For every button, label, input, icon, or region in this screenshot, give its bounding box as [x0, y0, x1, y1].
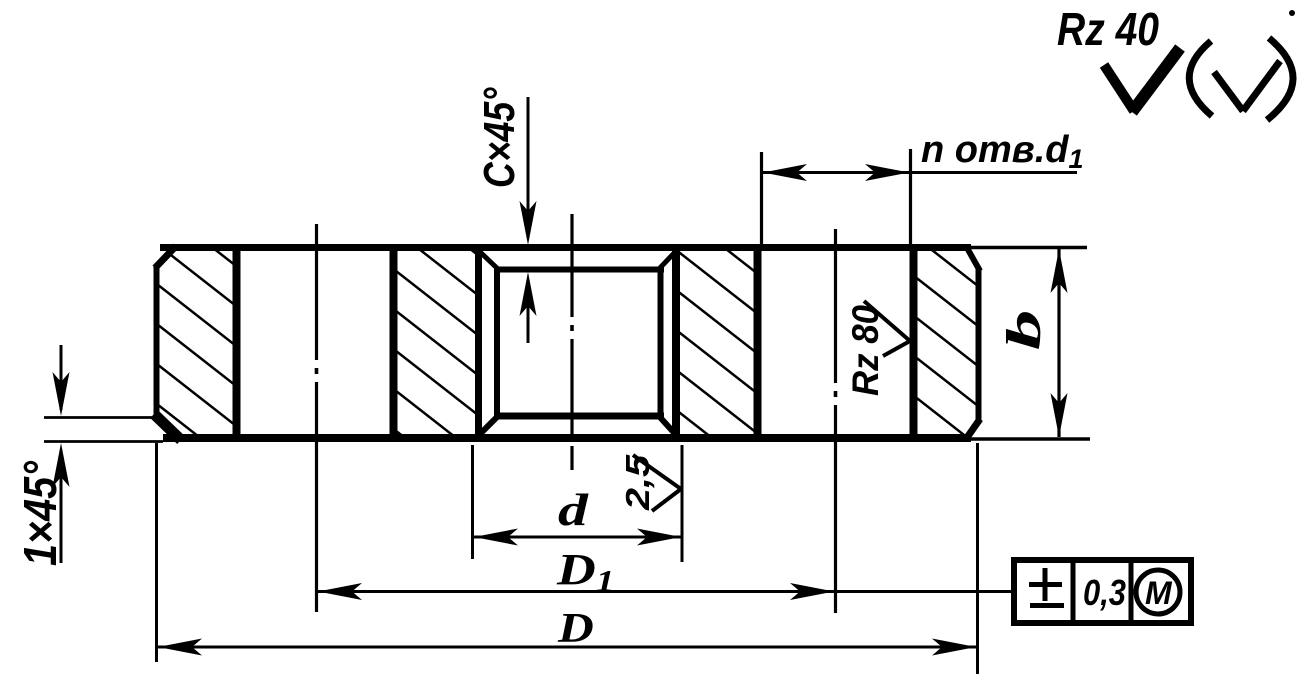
hatched section: right rim block: [914, 248, 978, 437]
center hole outer left line: [475, 249, 482, 436]
dimension n otv d1: right extension line: [909, 149, 912, 246]
left bolt hole left wall: [233, 248, 241, 437]
center hole inner top line: [494, 267, 664, 273]
dimension D: dimension line: [157, 646, 977, 649]
svg-text:C×45°: C×45°: [476, 87, 524, 188]
big check mark: [1104, 65, 1134, 111]
hole chamfer top-right: [658, 250, 677, 270]
chamfer top-right: [966, 246, 980, 271]
dimension D: left extension line: [155, 443, 158, 662]
dimension b: vertical line with arrows: [1057, 249, 1060, 437]
chamfer top-left: [155, 246, 176, 268]
dimension n otv d1: left extension line: [760, 152, 763, 246]
hatched section: block between center hole and right bolt hole: [679, 249, 756, 437]
body left edge: [154, 265, 160, 419]
right bolt hole left wall: [754, 248, 762, 437]
center hole inner left line: [494, 267, 500, 417]
center line of right bolt hole: [834, 229, 837, 383]
svg-text:n отв.d1: n отв.d1: [921, 129, 1084, 174]
svg-text:b: b: [998, 310, 1051, 350]
dimension 1 x 45 (left chamfer): top extension line: [44, 416, 158, 419]
center hole inner right line: [658, 267, 664, 417]
dimension C x 45: up arrow below: [527, 280, 530, 343]
right bolt hole right wall: [910, 248, 918, 437]
dimension 1 x 45: upper leader with down arrow: [60, 345, 63, 410]
center hole outer right line: [672, 249, 680, 436]
hole chamfer bottom-right: [658, 415, 677, 436]
dimension 1 x 45: bottom extension line: [44, 440, 163, 443]
dimension d: right extension line: [681, 445, 684, 562]
speck: [1289, 10, 1295, 16]
hole chamfer top-left: [478, 250, 499, 270]
chamfer bottom-right: [966, 419, 980, 439]
svg-text:0,3: 0,3: [1083, 572, 1126, 613]
tolerance frame box: [1014, 560, 1191, 623]
roughness mark 2,5 on hole wall: [633, 455, 681, 489]
closing parenthesis: [1267, 38, 1293, 120]
bottom line extension right (for b): [971, 437, 1090, 441]
small check mark in parens: [1214, 72, 1243, 111]
opening parenthesis: [1189, 41, 1212, 116]
body top line: [160, 244, 971, 251]
roughness mark Rz 80 on bolt hole wall: [864, 301, 910, 341]
dimension D: right extension line: [976, 443, 979, 674]
top line extension right (for b): [971, 246, 1087, 250]
center line of left bolt hole: [315, 224, 318, 360]
svg-text:2,5: 2,5: [619, 454, 656, 511]
dimension d: left extension line: [471, 445, 474, 559]
dimension n otv d1: dimension line with shelf: [763, 171, 1077, 174]
svg-text:Rz 80: Rz 80: [845, 305, 886, 396]
center line of central hole: [570, 214, 573, 317]
svg-text:1×45°: 1×45°: [15, 460, 66, 566]
dimension C x 45: leader line with down arrow: [527, 97, 530, 238]
hole chamfer bottom-left: [478, 415, 499, 436]
center hole inner bottom line: [494, 413, 664, 420]
svg-text:Rz 40: Rz 40: [1057, 3, 1159, 55]
svg-text:D: D: [557, 605, 594, 652]
symmetry symbol in frame: [1043, 568, 1048, 601]
body right edge: [976, 268, 982, 422]
dimension D1: dimension line (continues as leader to tolerance frame): [317, 590, 1014, 593]
body bottom line: [163, 434, 971, 442]
hatched section: block between left bolt hole and center hole: [394, 249, 476, 437]
M in circle (maximum material): [1136, 570, 1180, 614]
svg-text:M: M: [1145, 575, 1173, 611]
chamfer bottom-left: [154, 414, 181, 440]
dimension 1 x 45: lower leader with up arrow: [60, 450, 63, 563]
hatched section: left rim block: [158, 248, 978, 437]
dimension d: dimension line: [473, 536, 682, 539]
svg-text:d: d: [558, 484, 589, 536]
left bolt hole right wall: [390, 248, 398, 437]
